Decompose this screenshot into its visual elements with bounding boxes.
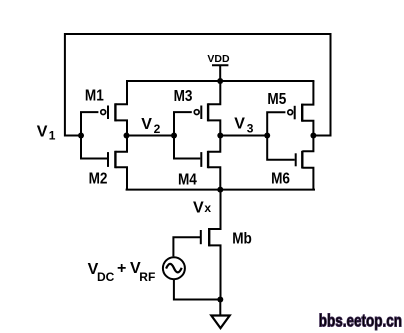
transistor M2 (NMOS) (81, 136, 127, 190)
svg-text:V: V (234, 116, 245, 133)
svg-text:+: + (117, 260, 126, 277)
transistor M4 (NMOS) (174, 136, 220, 190)
svg-text:V: V (37, 124, 48, 141)
svg-text:M4: M4 (178, 172, 198, 189)
wire ground stub (219, 300, 221, 316)
wire top feedback horizontal (65, 33, 331, 35)
svg-text:VDD: VDD (207, 53, 230, 65)
wire bottom rail node Vx (126, 189, 315, 191)
wire VDD rail (126, 80, 314, 82)
junction node Vx (217, 187, 223, 193)
svg-text:M6: M6 (271, 171, 290, 188)
svg-text:x: x (204, 201, 211, 215)
junction inverter-3 output feedback (310, 133, 316, 139)
transistor M1 (PMOS) (81, 81, 127, 136)
junction VDD tap (217, 78, 223, 84)
svg-text:V: V (193, 199, 204, 216)
svg-text:2: 2 (154, 122, 161, 136)
svg-text:RF: RF (139, 270, 155, 284)
VDD symbol (207, 53, 230, 81)
node Vx label (193, 199, 211, 216)
svg-text:M5: M5 (267, 91, 286, 108)
source VDC+VRF (sine source) (163, 257, 185, 279)
junction node V3 gate tap (264, 133, 270, 139)
junction inverter-2 output (217, 133, 223, 139)
svg-text:DC: DC (97, 270, 115, 284)
junction node V1 (78, 133, 84, 139)
svg-text:Mb: Mb (232, 231, 252, 248)
wire left feedback vertical to node V1 (65, 33, 81, 136)
wire net V3 (220, 135, 267, 137)
svg-text:3: 3 (247, 121, 254, 135)
junction node V2 gate tap (171, 133, 177, 139)
svg-text:M3: M3 (174, 88, 193, 105)
transistor M6 (NMOS) (267, 136, 313, 191)
label VDC + VRF (88, 260, 156, 284)
transistor M5 (PMOS) (267, 81, 313, 136)
node V2 label (141, 116, 160, 136)
svg-text:1: 1 (49, 128, 56, 142)
junction inverter-1 output (124, 133, 130, 139)
transistor Mb (NMOS tail) (173, 190, 251, 300)
wire source bottom to ground node (174, 279, 220, 299)
ground (211, 316, 229, 329)
svg-text:M1: M1 (85, 88, 104, 105)
svg-text:bbs.eetop.cn: bbs.eetop.cn (319, 312, 402, 331)
node V1 label (37, 124, 56, 143)
transistor M3 (PMOS) (174, 81, 221, 136)
node V3 label (234, 116, 254, 136)
wire net V2 (127, 135, 175, 137)
svg-text:V: V (141, 116, 152, 133)
svg-text:M2: M2 (89, 171, 108, 188)
junction ground node (217, 297, 223, 303)
wire right feedback vertical to inverter-3 output (313, 33, 330, 136)
